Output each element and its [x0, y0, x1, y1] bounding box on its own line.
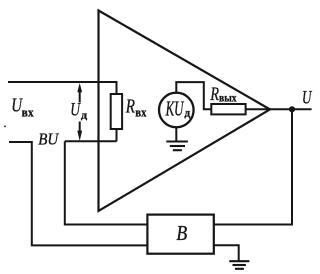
- wire source bottom to ground: [175, 127, 177, 141]
- speck scan artifact: [4, 125, 6, 127]
- svg-text:R: R: [125, 97, 135, 118]
- wire inverting node down to block B: [65, 141, 148, 224]
- svg-text:вх: вх: [22, 106, 35, 120]
- resistor Rвх body: [111, 94, 122, 129]
- wire block B to ground: [214, 245, 239, 261]
- block B rectangle: [147, 215, 213, 254]
- junction node dot at output: [289, 106, 295, 112]
- svg-text:д: д: [81, 110, 88, 122]
- svg-text:вх: вх: [135, 106, 147, 120]
- arrow Uд upper (pointing up): [77, 83, 82, 141]
- op-amp triangle: [99, 11, 271, 212]
- ground under source circle: [166, 140, 188, 142]
- arrow Uд lower (pointing down): [79, 122, 81, 133]
- wire BU input to block B: [9, 142, 147, 245]
- resistor Rвых body: [211, 104, 245, 114]
- wire below Rвх: [116, 129, 118, 141]
- wire top non-inverting input: [8, 82, 117, 95]
- svg-text:д: д: [184, 107, 190, 119]
- svg-text:R: R: [210, 84, 220, 105]
- svg-text:BU: BU: [38, 129, 60, 148]
- dependent source KUд circle: [159, 93, 194, 128]
- wire output feedback down: [214, 109, 292, 224]
- svg-text:B: B: [176, 221, 187, 245]
- ground under block B: [229, 260, 249, 262]
- svg-text:U: U: [302, 88, 313, 108]
- wire source top to Rвых: [176, 82, 211, 109]
- svg-text:вых: вых: [219, 93, 237, 105]
- wire lower differential rail: [65, 140, 117, 142]
- svg-text:U: U: [70, 99, 81, 120]
- svg-text:KU: KU: [165, 96, 184, 120]
- wire Rвых to output U: [246, 108, 312, 110]
